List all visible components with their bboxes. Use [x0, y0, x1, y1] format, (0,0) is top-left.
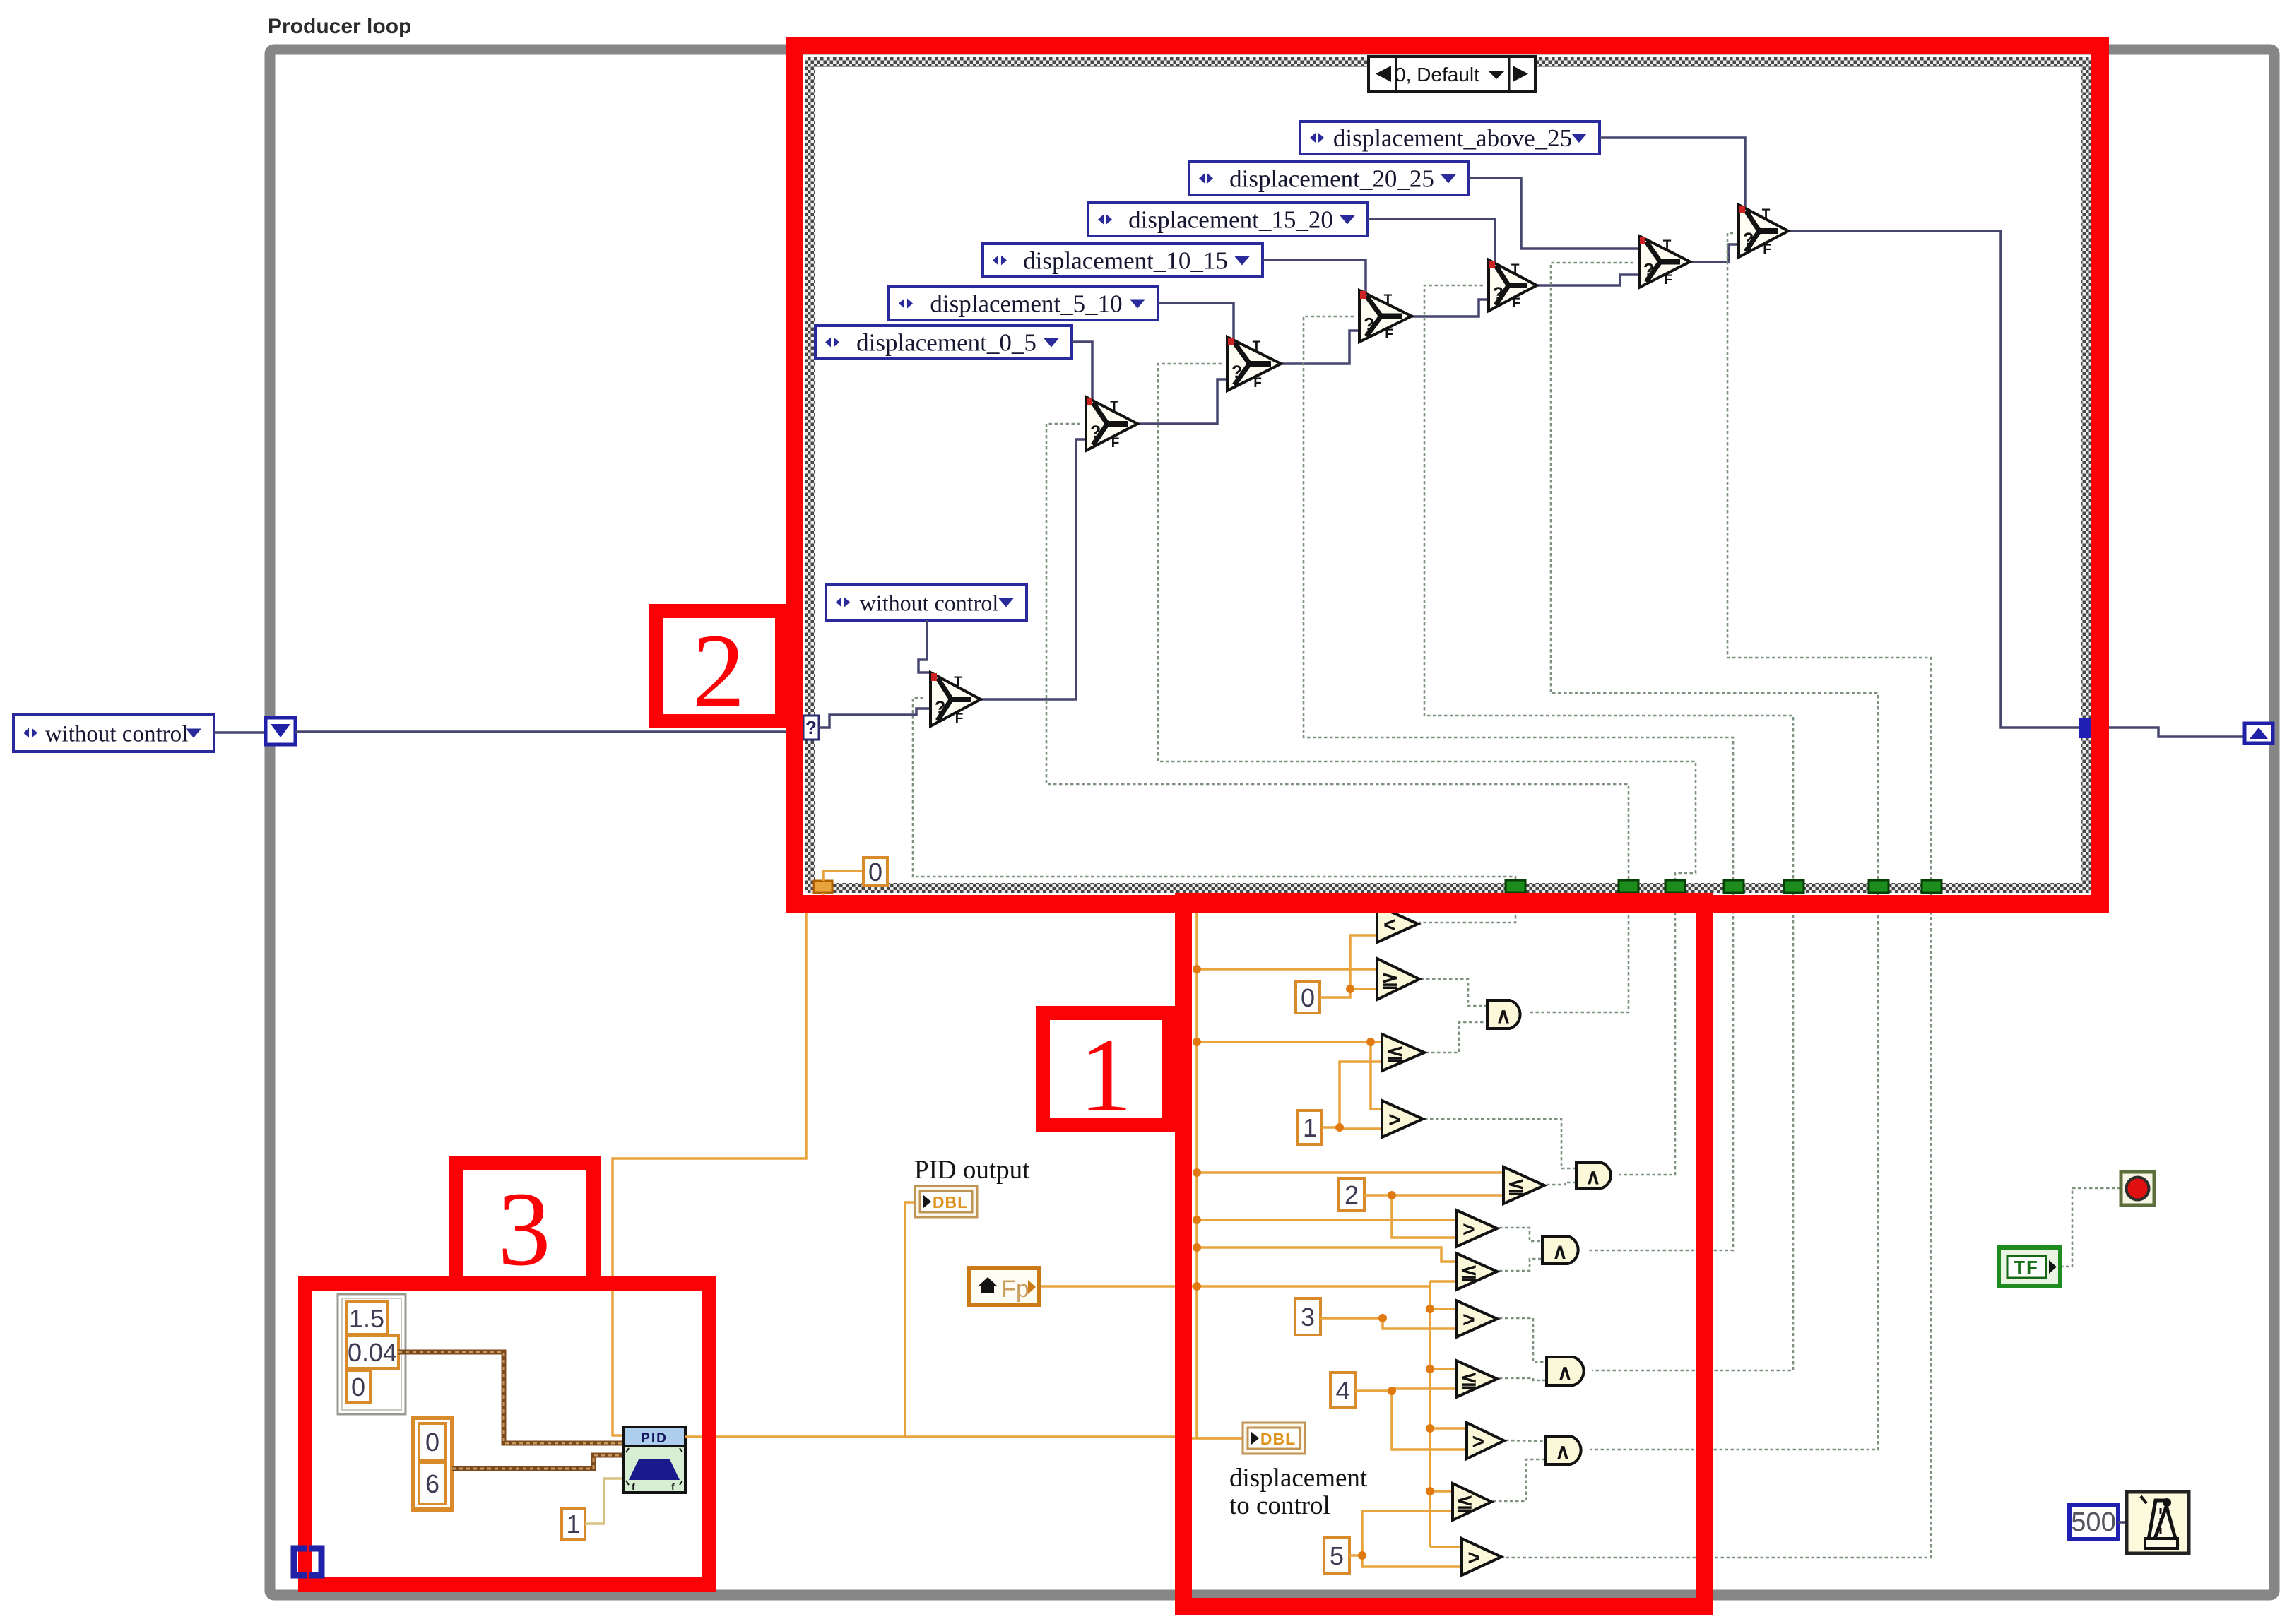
wire leq2 out to AND2 [1547, 1183, 1576, 1185]
svg-text:3: 3 [498, 1170, 551, 1288]
svg-text:F: F [1512, 296, 1520, 311]
case selector tunnel "?" [803, 716, 819, 740]
svg-text:∧: ∧ [1496, 1004, 1511, 1028]
numeric constant 5 [1324, 1537, 1349, 1574]
svg-text:1: 1 [1080, 1017, 1133, 1134]
wire V1 to less-equal-2 [1197, 1171, 1503, 1174]
wire V1 vertical [1195, 906, 1198, 1438]
svg-text:?: ? [805, 717, 817, 738]
svg-text:DBL: DBL [933, 1193, 968, 1211]
cluster constant frame (1.5 / 0.04 / 0) [338, 1294, 406, 1414]
svg-text:<: < [1383, 913, 1396, 937]
wire displacement_20_25 to S5 t input [1469, 178, 1645, 249]
wire displacement_0_5 to S1 t input [1072, 342, 1092, 400]
wire junction V2-b [1426, 1365, 1434, 1373]
svg-text:0, Default: 0, Default [1395, 64, 1479, 85]
svg-text:1: 1 [1303, 1113, 1317, 1142]
wire gt4 out to AND5 [1506, 1440, 1545, 1441]
wire S4 selector boolean [1424, 285, 1793, 1370]
svg-text:∧: ∧ [1555, 1440, 1571, 1464]
case selector label "0, Default" [1369, 57, 1535, 91]
TF boolean indicator [1999, 1247, 2060, 1286]
svg-text:PID: PID [641, 1431, 668, 1446]
wire Fp wire into region1 [1039, 1285, 1430, 1288]
wire junction Fp-V1 [1193, 1282, 1201, 1291]
DBL indicator PID output [915, 1186, 977, 1217]
svg-text:≦: ≦ [1455, 1491, 1473, 1515]
select node S0 [930, 672, 981, 726]
svg-text:≧: ≧ [1381, 968, 1399, 992]
svg-text:2: 2 [692, 612, 745, 730]
wire 1 junction to gt1 [1340, 1127, 1382, 1129]
wire S4 output to S5 f input [1537, 275, 1639, 285]
red annotation box 1 (comparison region) [1183, 901, 1704, 1606]
wire 1 to junction [1322, 1062, 1382, 1127]
wire 5 branch to gt5 bottom [1362, 1555, 1462, 1567]
wire junction 5-branch [1358, 1551, 1366, 1560]
wire S2 output to S3 f input [1281, 331, 1359, 364]
svg-text:∧: ∧ [1552, 1240, 1568, 1264]
svg-text:?: ? [1493, 284, 1503, 304]
boolean tunnel 3 on case border [1665, 880, 1685, 893]
DBL indicator displacement to control [1243, 1423, 1305, 1454]
wire junction 4-branch [1388, 1387, 1396, 1395]
svg-text:f: f [632, 1481, 635, 1493]
comparison node greater 3 [1456, 1300, 1497, 1337]
select node S4 [1489, 260, 1537, 311]
wire junction leq1-branch [1366, 1038, 1375, 1046]
wire junction V1-leq3 [1193, 1243, 1201, 1252]
svg-text:T: T [1762, 207, 1771, 222]
svg-text:0: 0 [868, 858, 882, 887]
numeric constant 0 (pid) [346, 1370, 370, 1403]
wire V1 to less-equal-3 [1197, 1247, 1456, 1262]
boolean tunnel 1 on case border [1506, 880, 1525, 893]
wire without control to S0 t input [918, 620, 931, 672]
svg-text:F: F [1385, 327, 1393, 342]
svg-text:PID output: PID output [914, 1156, 1030, 1185]
svg-text:1: 1 [566, 1510, 580, 1539]
svg-text:1.5: 1.5 [349, 1304, 384, 1333]
numeric constant 0 (case) [863, 858, 887, 887]
case output tunnel (solid) [2079, 718, 2093, 738]
comparison node less or equal 1 [1382, 1034, 1424, 1071]
wire comparator feed vertical [1180, 904, 1197, 907]
svg-text:≦: ≦ [1460, 1368, 1477, 1392]
enum constant displacement_0_5 [815, 326, 1072, 359]
svg-text:6: 6 [425, 1469, 439, 1498]
wire S6 selector boolean [1501, 233, 1931, 1558]
svg-text:2: 2 [1345, 1180, 1359, 1209]
wire S3 output to S4 f input [1412, 300, 1489, 316]
svg-text:F: F [1763, 242, 1771, 257]
stop button terminal [2121, 1172, 2154, 1205]
cluster wire PID gains [398, 1352, 625, 1443]
select node S1 [1086, 397, 1137, 451]
enum constant without_control_in_case [826, 584, 1027, 620]
boolean tunnel 7 on case border [1922, 880, 1942, 893]
numeric constant 6 (limit) [419, 1463, 446, 1504]
numeric constant 0 [1296, 982, 1320, 1013]
svg-text:TF: TF [2014, 1257, 2039, 1278]
wire 2 to leq2 bottom [1364, 1194, 1503, 1197]
case structure top border [805, 57, 2100, 67]
numeric constant 4 [1330, 1373, 1355, 1408]
svg-text:4: 4 [1335, 1376, 1349, 1405]
enum constant displacement_15_20 [1088, 203, 1368, 236]
numeric constant 1 [1298, 1110, 1322, 1144]
svg-text:displacement: displacement [1229, 1464, 1368, 1493]
svg-text:F: F [1253, 376, 1262, 391]
select node S2 [1227, 337, 1281, 391]
wire V1 to displacement DBL [1197, 1437, 1244, 1440]
wire S0 selector boolean [913, 698, 1515, 923]
svg-text:Producer loop: Producer loop [268, 15, 411, 38]
wire enum source to loop tunnel [214, 731, 270, 734]
svg-text:?: ? [1743, 230, 1754, 249]
enum constant displacement_10_15 [983, 244, 1263, 277]
comparison node greater 1 [1382, 1101, 1423, 1137]
wire S1 selector boolean [1046, 424, 1629, 1012]
svg-text:>: > [1462, 1218, 1475, 1241]
wire geq out to AND1 [1421, 979, 1487, 1006]
svg-text:T: T [954, 675, 962, 689]
label "displacement to control" [1229, 1464, 1368, 1520]
wire 0 junction to geq [1350, 988, 1377, 990]
svg-text:F: F [1664, 273, 1672, 288]
comparison node less or equal 4 [1456, 1361, 1497, 1397]
wire gt1 out to AND2 [1424, 1119, 1576, 1168]
red annotation box 2 (case region) [795, 46, 2100, 904]
numeric constant 2 [1339, 1178, 1364, 1211]
wire stub to 0 constant [823, 871, 863, 881]
wire junction V2-d [1426, 1487, 1434, 1495]
AND gate AND5 [1545, 1436, 1581, 1464]
red annotation label 1 [1043, 1013, 1169, 1134]
numeric constant 500 [2069, 1505, 2118, 1539]
svg-text:>: > [1467, 1546, 1480, 1570]
comparison node less or equal 3 [1456, 1253, 1497, 1290]
svg-text:5: 5 [1330, 1541, 1344, 1570]
svg-text:F: F [955, 711, 964, 726]
comparison node less or equal 5 [1453, 1483, 1491, 1520]
svg-text:T: T [1110, 399, 1118, 414]
wire S0 output to S1 f input [981, 439, 1086, 699]
wire 4 to junction [1355, 1389, 1456, 1391]
select node S5 [1639, 236, 1690, 288]
wire V2 to leq3 bottom [1430, 1280, 1456, 1283]
wait (ms) metronome [2127, 1492, 2189, 1553]
svg-text:displacement_10_15: displacement_10_15 [1023, 247, 1228, 275]
svg-text:displacement_5_10: displacement_5_10 [930, 290, 1122, 318]
boolean tunnel 2 on case border [1619, 880, 1638, 893]
wire 5 to junction [1349, 1511, 1453, 1555]
wire displacement_above_25 to S6 t input [1600, 138, 1745, 208]
svg-text:T: T [1663, 238, 1672, 253]
select node S3 [1359, 290, 1412, 342]
label "Producer loop" [268, 15, 411, 38]
svg-text:?: ? [1643, 261, 1654, 280]
wire V1 to greater-equal [1197, 968, 1377, 971]
wire dt constant to PID [585, 1478, 625, 1524]
wire S1 output to S2 f input [1137, 379, 1227, 424]
svg-text:F: F [1111, 436, 1120, 451]
enum constant displacement_5_10 [889, 287, 1158, 320]
wire S3 selector boolean [1304, 316, 1733, 1250]
svg-text:>: > [1462, 1308, 1475, 1332]
svg-text:?: ? [1364, 315, 1374, 335]
wire leq3 out to AND3 [1499, 1259, 1542, 1271]
wire leq1 out to AND1 [1426, 1022, 1487, 1053]
wire displacement_10_15 to S3 t input [1263, 260, 1366, 293]
wire PID output wire [685, 1202, 916, 1437]
boolean tunnel 4 on case border [1724, 880, 1744, 893]
wire 500 to wait [2118, 1521, 2127, 1524]
cluster wire PID limits [452, 1455, 625, 1469]
svg-text:3: 3 [1301, 1303, 1315, 1332]
wire S5 output to S6 f input [1690, 244, 1739, 262]
wire 2 branch to gt2 bottom [1392, 1195, 1456, 1238]
svg-text:f: f [671, 1481, 675, 1493]
enum constant displacement_above_25 [1300, 121, 1600, 154]
comparison node greater 4 [1467, 1423, 1504, 1459]
svg-text:DBL: DBL [1260, 1430, 1296, 1448]
svg-text:0.04: 0.04 [348, 1338, 397, 1367]
wire displacement wire tunnel to PID [613, 893, 823, 1435]
orange tunnel on case border [814, 881, 832, 893]
loop iteration terminal [i] [294, 1548, 321, 1575]
svg-text:0: 0 [351, 1373, 365, 1401]
wire V1 to greater-2 [1197, 1219, 1456, 1221]
wire junction V1-leq1 [1193, 1038, 1201, 1046]
numeric constant 1.5 [346, 1302, 387, 1334]
svg-text:500: 500 [2071, 1507, 2115, 1537]
svg-text:≦: ≦ [1386, 1042, 1404, 1065]
wire V2 to leq5 top [1430, 1490, 1453, 1493]
comparison node less than [1377, 906, 1418, 942]
svg-text:?: ? [1090, 422, 1101, 442]
svg-text:>: > [1388, 1108, 1401, 1132]
svg-text:displacement_0_5: displacement_0_5 [856, 329, 1036, 357]
numeric constant 1 (dt) [562, 1508, 585, 1539]
loop input tunnel [266, 718, 295, 745]
svg-text:0: 0 [1301, 983, 1315, 1012]
svg-text:≦: ≦ [1460, 1261, 1477, 1284]
wire PID output to displacement indicator [905, 1437, 1244, 1438]
wire junction V2-c [1426, 1424, 1434, 1433]
svg-text:T: T [1384, 292, 1393, 307]
wire junction V1-leq2 [1193, 1168, 1201, 1177]
wire gt3 out to AND4 [1499, 1318, 1547, 1362]
comparison node greater or equal [1377, 959, 1419, 1000]
wire junction V1-geq [1193, 965, 1201, 973]
boolean tunnel 6 on case border [1869, 880, 1889, 893]
boolean tunnel 5 on case border [1784, 880, 1804, 893]
wire displacement_5_10 to S2 t input [1158, 303, 1234, 340]
svg-text:T: T [1253, 339, 1261, 354]
wire 4 branch to gt4 bottom [1392, 1391, 1467, 1450]
wire junction 0-branch [1346, 985, 1354, 993]
cluster constant frame (0 / 6) [413, 1418, 452, 1510]
wire junction V1-gt2 [1193, 1216, 1201, 1224]
case structure left border [805, 57, 815, 893]
loop output tunnel [2245, 723, 2273, 743]
wire S2 selector boolean [1158, 364, 1696, 1175]
svg-text:displacement_20_25: displacement_20_25 [1229, 165, 1434, 193]
wire V2 vertical [1429, 1281, 1431, 1547]
wire V2 to leq4 top [1430, 1368, 1456, 1370]
wire branch to greater-1 [1371, 1042, 1382, 1109]
wire V2 to gt4 top [1430, 1427, 1467, 1430]
wire gt2 out to AND3 [1499, 1228, 1542, 1241]
svg-text:?: ? [1231, 362, 1242, 382]
wire case out to loop out tunnel [2093, 728, 2245, 737]
wire selector tunnel to select S0 f input [819, 709, 930, 728]
numeric constant 3 [1295, 1298, 1320, 1335]
case structure right border [2081, 57, 2091, 893]
PID.vi block [623, 1427, 685, 1493]
svg-text:to control: to control [1229, 1491, 1330, 1520]
svg-text:without control: without control [45, 722, 189, 747]
svg-text:>: > [1472, 1430, 1484, 1454]
wire junction 1-branch [1335, 1123, 1344, 1132]
wire S5 selector boolean [1551, 263, 1878, 1450]
comparison node greater 2 [1456, 1210, 1497, 1247]
numeric constant 0 (limit) [419, 1423, 446, 1460]
wire V1 to less-than [1197, 910, 1377, 913]
svg-text:≦: ≦ [1507, 1175, 1525, 1198]
svg-text:∧: ∧ [1557, 1361, 1573, 1385]
select node S6 [1739, 205, 1788, 257]
wire junction V2-a [1426, 1305, 1434, 1313]
case structure bottom border [805, 883, 2100, 893]
wire 3 to junction [1320, 1318, 1456, 1329]
enum constant displacement_20_25 [1189, 162, 1469, 195]
comparison node less or equal 2 [1503, 1167, 1544, 1204]
wire V2 to gt5 top [1430, 1546, 1462, 1548]
wire leq4 out to AND4 [1499, 1378, 1547, 1380]
svg-text:without control: without control [860, 591, 999, 616]
wire V1 to less-equal-1 [1197, 1041, 1382, 1043]
enum constant without_control_source [13, 714, 214, 752]
comparison node greater 5 [1462, 1539, 1501, 1575]
wire displacement_15_20 to S4 t input [1368, 219, 1495, 263]
wire V2 to gt3 top [1430, 1308, 1456, 1310]
wire 0 to junction [1320, 935, 1377, 997]
label "PID output" [914, 1156, 1030, 1185]
numeric constant 0.04 [346, 1336, 398, 1368]
AND gate AND4 [1547, 1357, 1584, 1385]
AND gate AND3 [1542, 1236, 1578, 1264]
Fp control [969, 1268, 1039, 1305]
svg-text:Fp: Fp [1001, 1276, 1029, 1303]
svg-text:?: ? [935, 698, 945, 718]
svg-text:T: T [1511, 262, 1520, 277]
wire leq5 out to AND5 [1493, 1459, 1545, 1501]
svg-text:displacement_15_20: displacement_15_20 [1128, 206, 1333, 234]
wire junction 3-branch [1378, 1314, 1387, 1322]
svg-text:∧: ∧ [1585, 1166, 1601, 1189]
wire junction 2-branch [1388, 1191, 1396, 1199]
wire TF to stop terminal [2060, 1188, 2120, 1267]
svg-text:0: 0 [425, 1428, 439, 1457]
red annotation box 3 (PID region) [305, 1284, 709, 1584]
red annotation label 3 [456, 1163, 593, 1288]
AND gate AND2 [1576, 1163, 1611, 1189]
AND gate AND1 [1487, 1000, 1520, 1029]
wire tunnel to case selector [295, 730, 805, 733]
wire S6 output to case out tunnel [1788, 231, 2081, 728]
svg-text:displacement_above_25: displacement_above_25 [1333, 124, 1572, 152]
red annotation label 2 [656, 611, 782, 730]
